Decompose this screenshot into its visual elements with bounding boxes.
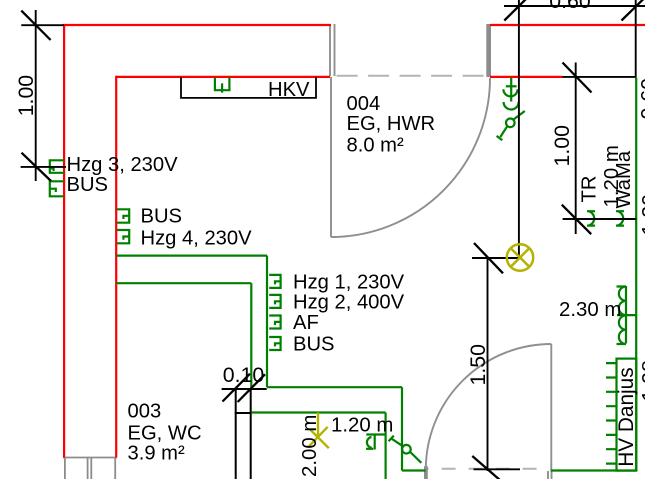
dimension 1.00 left top extension [21, 24, 64, 26]
dimension 1.00 left : line [35, 10, 37, 181]
HKV distribution box [181, 77, 316, 98]
lamp L1 cross [511, 248, 530, 267]
lamp L1 wire horizontal [472, 257, 520, 259]
svg-text:1.50: 1.50 [466, 344, 490, 386]
door D1 left jamb [330, 24, 335, 76]
dimension 1.00 right top slash [563, 63, 592, 93]
dimension 1.50 bottom slash [472, 456, 504, 479]
svg-text:EG, HWR: EG, HWR [347, 113, 436, 135]
svg-text:Hzg 2, 400V: Hzg 2, 400V [293, 292, 405, 314]
dimension 1.50 : line [487, 258, 489, 471]
quad socket end ticks [617, 287, 627, 345]
svg-text:Hzg 3, 230V: Hzg 3, 230V [67, 154, 179, 176]
socket WaMa [616, 211, 624, 225]
dimension 0.10 slash right [238, 374, 265, 402]
dimension 1.00 right bottom slash [562, 205, 591, 235]
dimension 0.60 tick slash right [622, 0, 645, 21]
switch S2 lever [391, 438, 421, 462]
window W1 sill line [63, 457, 117, 459]
wire green w1 horizontal [116, 255, 267, 257]
socket group cross tick [506, 85, 517, 87]
socket at 1.20m arc [367, 437, 372, 448]
heating actuator symbol Hzg3 [50, 160, 64, 173]
HV Danjus teeth [606, 363, 617, 464]
door D1 swing arc [331, 78, 490, 237]
wire green w6 horizontal to HV [551, 469, 637, 471]
svg-text:3.9 m²: 3.9 m² [128, 443, 185, 465]
bus connection symbol BUS-C [269, 337, 280, 350]
switch S1 circle [506, 119, 515, 128]
dimension 1.00 right : line [575, 63, 577, 235]
heating circuit symbol at HKV [215, 78, 230, 93]
svg-text:004: 004 [347, 93, 381, 115]
svg-text:1.00: 1.00 [14, 75, 38, 117]
wall red outer top-right [490, 24, 645, 26]
wall red inner top (HKV wall) [116, 76, 330, 78]
bus connection symbol BUS-B [117, 209, 129, 222]
wall red outer top-left [63, 24, 331, 26]
wall red inner left vertical [115, 76, 117, 458]
dimension 1.50 bottom extension [474, 468, 521, 470]
svg-text:003: 003 [128, 401, 162, 423]
svg-text:Hzg 1, 230V: Hzg 1, 230V [293, 272, 405, 294]
wire green w5 horizontal [402, 469, 426, 471]
dimension 1.00 left bottom extension [21, 166, 66, 168]
wall red outer left vertical [63, 24, 65, 458]
svg-text:2.30 m: 2.30 m [559, 299, 621, 321]
svg-text:TR: TR [579, 176, 601, 203]
dimension 0.10 slash left [223, 374, 251, 402]
wall black WC partition right [250, 389, 252, 479]
dimension 1.50 top slash [474, 243, 503, 273]
quad socket 2.30m chord line [625, 286, 627, 344]
door D1 right jamb [486, 24, 491, 77]
wire green w7 horizontal [116, 282, 251, 284]
svg-text:AF: AF [293, 312, 319, 334]
heating actuator symbol Hzg1 [269, 275, 280, 288]
window W1 frame verticals [65, 458, 115, 479]
dimension line at TR/WaMa level [563, 218, 637, 220]
svg-text:HV Danjus: HV Danjus [615, 367, 638, 466]
svg-text:BUS: BUS [293, 334, 335, 356]
socket arc 1 [503, 89, 517, 96]
wire green right wall vertical [635, 78, 637, 471]
socket+switch group at door 004 : stem [510, 78, 512, 102]
socket at 1.20m bottom : chord [374, 435, 376, 450]
svg-text:8.0 m²: 8.0 m² [347, 134, 404, 156]
socket at 1.20m connector [366, 433, 385, 435]
HV Danjus distribution board box [617, 359, 637, 471]
bus connection symbol BUS-A [50, 181, 64, 196]
dimension 0.60 tick slash left [504, 0, 527, 21]
svg-text:EG, WC: EG, WC [128, 423, 202, 445]
heating actuator symbol Hzg4 [117, 230, 129, 243]
switch S1 lever upper [513, 111, 524, 120]
lamp L1 wire vertical [518, 0, 520, 258]
svg-text:WaMa: WaMa [613, 150, 635, 208]
dimension 0.10 : line [222, 388, 267, 390]
wire green w10 vertical to bottom edge [385, 413, 387, 479]
lamp outlet X symbol [309, 413, 329, 449]
heating actuator symbol Hzg2 [269, 295, 280, 308]
dimension 1.00 left top slash [21, 11, 50, 40]
door D1 leaf (room 004) [330, 77, 332, 237]
svg-text:2.00 m: 2.00 m [299, 415, 321, 477]
dimension 0.60 right extension vertical [635, 0, 637, 78]
svg-text:1.98: 1.98 [638, 360, 645, 401]
wire green w3 horizontal [267, 386, 402, 388]
switch S2 circle [402, 445, 411, 454]
wall black WC cap segment [235, 412, 252, 414]
socket TR [587, 211, 595, 225]
door D2 swing arc [426, 344, 552, 470]
svg-text:0.60: 0.60 [549, 0, 591, 13]
svg-text:1.20 m: 1.20 m [331, 415, 393, 437]
wire green w9 horizontal lower [251, 411, 385, 413]
svg-text:HKV: HKV [268, 79, 310, 101]
svg-text:1.00: 1.00 [550, 125, 574, 167]
socket at 1.20m bottom tick [366, 448, 373, 450]
door D2 left jamb [424, 466, 428, 479]
svg-text:0.10: 0.10 [223, 363, 265, 387]
dimension 1.00 left bottom slash [22, 153, 52, 181]
svg-text:0.60: 0.60 [637, 78, 645, 120]
dimension 0.60 top : line [504, 5, 645, 7]
svg-text:BUS: BUS [67, 174, 109, 196]
door D2 opening dashed line [427, 468, 547, 470]
wall black WC partition left [235, 389, 237, 479]
door D1 opening dashed line [337, 75, 484, 77]
wire green w2 vertical [266, 256, 268, 388]
lamp L1 circle [507, 244, 533, 270]
svg-text:1.20: 1.20 [638, 194, 645, 236]
switch S1 lever lower with end tick [497, 126, 508, 140]
wall black top-right segment [563, 76, 636, 78]
quad socket arcs [619, 287, 626, 345]
quad socket connector to wall [617, 314, 636, 316]
wire green w8 vertical [250, 283, 252, 389]
door D2 leaf (hall door bottom) [550, 344, 552, 470]
wall red inner top-right segment [490, 76, 563, 78]
svg-text:Hzg 4, 230V: Hzg 4, 230V [141, 227, 253, 249]
switch S2 end tick [389, 436, 394, 442]
door D2 right jamb [548, 471, 552, 479]
window contact symbol AF [269, 316, 280, 329]
svg-text:BUS: BUS [141, 205, 183, 227]
socket arc 2 [504, 102, 519, 110]
wire green w4 vertical [401, 387, 403, 470]
